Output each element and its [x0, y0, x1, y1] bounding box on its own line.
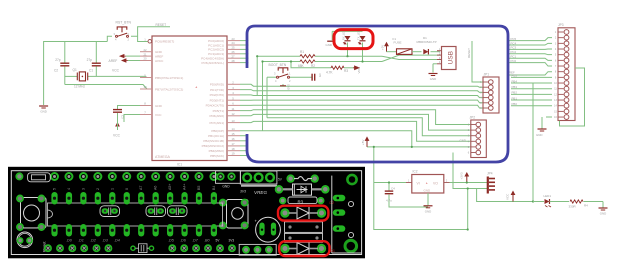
svg-text:.D2: .D2 [90, 239, 96, 243]
svg-text:23: 23 [231, 37, 235, 41]
svg-text:AREF: AREF [109, 59, 118, 63]
svg-text:GND: GND [430, 77, 436, 81]
svg-text:PC4: PC4 [511, 41, 517, 45]
svg-text:25: 25 [231, 46, 235, 50]
svg-text:PC0: PC0 [511, 59, 517, 63]
svg-text:.D5: .D5 [168, 239, 175, 243]
svg-text:5: 5 [53, 188, 57, 190]
svg-text:VO: VO [433, 181, 438, 185]
svg-text:22: 22 [143, 48, 147, 52]
svg-text:PD1(TXD): PD1(TXD) [210, 88, 224, 92]
svg-text:R1: R1 [300, 50, 304, 54]
svg-text:3V3: 3V3 [229, 239, 235, 243]
svg-text:VI: VI [417, 181, 420, 185]
svg-text:14: 14 [231, 127, 235, 131]
svg-text:VCC: VCC [506, 193, 510, 200]
svg-text:VCC: VCC [113, 134, 121, 138]
svg-text:VCC: VCC [112, 69, 120, 73]
svg-text:VCC: VCC [155, 113, 162, 117]
svg-text:JP4: JP4 [487, 172, 493, 176]
svg-text:330R: 330R [569, 205, 577, 209]
svg-text:B5: B5 [197, 186, 201, 190]
svg-text:PC3: PC3 [511, 46, 517, 50]
svg-text:PD0(RXD): PD0(RXD) [210, 83, 224, 87]
svg-text:12: 12 [231, 112, 235, 116]
svg-text:PB2(SS/OC1B): PB2(SS/OC1B) [203, 139, 224, 143]
svg-text:PB7(XTAL2/TOSC2): PB7(XTAL2/TOSC2) [155, 87, 183, 91]
svg-text:A6: A6 [154, 186, 158, 190]
svg-text:PB5: PB5 [512, 74, 518, 78]
svg-text:16: 16 [231, 137, 235, 141]
svg-text:RESET: RESET [156, 23, 167, 27]
svg-text:3: 3 [81, 188, 85, 190]
svg-text:RX_LED: RX_LED [342, 30, 346, 40]
svg-text:15: 15 [231, 132, 235, 136]
svg-text:PD3(INT1): PD3(INT1) [210, 99, 224, 103]
svg-text:PC1(ADC1): PC1(ADC1) [208, 43, 224, 47]
svg-text:PC3(ADC3): PC3(ADC3) [208, 52, 224, 56]
svg-text:GND: GND [287, 84, 291, 90]
svg-text:1: 1 [110, 188, 114, 190]
svg-text:C4: C4 [391, 187, 395, 191]
svg-text:GND: GND [155, 104, 163, 108]
svg-text:GND: GND [155, 50, 163, 54]
svg-text:FUSE: FUSE [394, 41, 402, 45]
svg-text:20: 20 [143, 57, 147, 61]
svg-text:27: 27 [231, 54, 235, 58]
svg-text:R4: R4 [584, 204, 588, 208]
svg-text:TX_LED: TX_LED [357, 30, 361, 40]
svg-text:RST_BTN: RST_BTN [116, 21, 132, 25]
svg-text:17: 17 [231, 142, 235, 146]
svg-text:PC5(ADC5/SCL): PC5(ADC5/SCL) [201, 61, 224, 65]
svg-text:AVCC: AVCC [155, 59, 164, 63]
svg-text:PD4(XCK/T0): PD4(XCK/T0) [206, 104, 224, 108]
svg-text:PB4(MISO): PB4(MISO) [209, 149, 224, 153]
svg-text:PC4(ADC4/SDA): PC4(ADC4/SDA) [201, 57, 224, 61]
svg-text:+3V3: +3V3 [460, 172, 464, 179]
svg-text:PC2(ADC2): PC2(ADC2) [208, 48, 224, 52]
svg-text:13: 13 [231, 119, 235, 123]
svg-text:PC6(/RESET): PC6(/RESET) [155, 40, 174, 44]
svg-text:11: 11 [232, 107, 235, 111]
svg-text:USB: USB [448, 50, 455, 64]
svg-text:PB3: PB3 [512, 85, 518, 89]
svg-text:+: + [426, 181, 428, 185]
svg-text:PD7(AIN1): PD7(AIN1) [209, 121, 224, 125]
svg-text:JP1: JP1 [484, 73, 490, 77]
svg-text:.D4: .D4 [114, 239, 120, 243]
svg-text:IC1: IC1 [177, 163, 182, 167]
svg-text:A5+: A5+ [168, 184, 172, 191]
svg-text:D1: D1 [331, 249, 335, 253]
svg-text:24: 24 [231, 41, 235, 45]
svg-text:3V3: 3V3 [240, 190, 246, 194]
svg-text:10: 10 [143, 85, 147, 89]
svg-text:VCC: VCC [357, 66, 361, 73]
svg-text:JP2: JP2 [470, 116, 476, 120]
svg-text:28: 28 [231, 59, 235, 63]
svg-text:27p: 27p [87, 58, 93, 62]
svg-text:C5: C5 [318, 74, 322, 78]
svg-text:PB1: PB1 [512, 96, 518, 100]
svg-text:IC2: IC2 [413, 170, 418, 174]
svg-text:PB0: PB0 [512, 102, 518, 106]
svg-text:PB2: PB2 [512, 91, 518, 95]
svg-text:.D3: .D3 [102, 239, 109, 243]
svg-text:GND: GND [536, 133, 542, 137]
svg-text:21: 21 [143, 52, 147, 56]
svg-text:PC5: PC5 [511, 37, 517, 41]
svg-text:Q1: Q1 [73, 68, 77, 72]
svg-text:.B0: .B0 [204, 239, 210, 243]
svg-text:.D1: .D1 [78, 239, 84, 243]
svg-text:GND: GND [425, 209, 431, 213]
svg-text:PC1: PC1 [511, 55, 517, 59]
svg-text:B4: B4 [212, 186, 216, 190]
svg-text:GND: GND [424, 189, 432, 193]
svg-text:C2: C2 [54, 69, 58, 73]
svg-text:A7: A7 [139, 186, 143, 190]
svg-text:R3: R3 [298, 199, 304, 204]
svg-text:PB5(SCK): PB5(SCK) [210, 154, 224, 158]
svg-text:+5V: +5V [361, 140, 365, 145]
svg-text:PC2: PC2 [511, 50, 517, 54]
svg-text:GND: GND [40, 110, 46, 114]
svg-text:4: 4 [67, 188, 71, 190]
svg-text:A4+: A4+ [183, 184, 187, 191]
svg-text:19: 19 [231, 152, 235, 156]
svg-text:R3: R3 [344, 69, 348, 73]
svg-text:ATMEGA: ATMEGA [155, 155, 171, 159]
svg-text:PB6(XTAL1/TOSC1): PB6(XTAL1/TOSC1) [155, 76, 183, 80]
svg-text:MBRX0540-TP: MBRX0540-TP [417, 40, 437, 44]
svg-text:PD5(T1): PD5(T1) [213, 109, 224, 113]
svg-text:0: 0 [125, 188, 129, 190]
svg-text:PB4: PB4 [512, 79, 518, 83]
svg-text:.D6: .D6 [180, 239, 187, 243]
svg-text:PB0(ICP): PB0(ICP) [211, 129, 224, 133]
svg-text:PD2(INT0): PD2(INT0) [210, 93, 224, 97]
svg-text:JP3: JP3 [558, 23, 564, 27]
svg-text:GND: GND [600, 212, 606, 216]
svg-text:2: 2 [96, 188, 100, 190]
svg-text:.D7: .D7 [192, 239, 199, 243]
svg-text:+5V: +5V [381, 45, 385, 50]
svg-text:GND: GND [222, 184, 230, 188]
svg-text:4.7u: 4.7u [386, 199, 392, 203]
svg-text:PB3(MOSI/OC2): PB3(MOSI/OC2) [202, 144, 224, 148]
svg-text:PD6(AIN0): PD6(AIN0) [209, 114, 224, 118]
svg-text:26: 26 [231, 50, 235, 54]
svg-text:27p: 27p [55, 58, 61, 62]
svg-text:C1: C1 [89, 69, 93, 73]
svg-text:12 MHz: 12 MHz [74, 85, 85, 89]
svg-text:PC0(ADC0): PC0(ADC0) [208, 39, 224, 43]
svg-text:AREF: AREF [155, 54, 163, 58]
svg-text:GND: GND [460, 139, 466, 143]
svg-text:VREG: VREG [254, 190, 267, 195]
svg-text:LED1: LED1 [544, 194, 552, 198]
svg-text:18: 18 [231, 147, 235, 151]
svg-text:4.7K: 4.7K [326, 71, 333, 75]
svg-text:BOOT_BTN: BOOT_BTN [269, 63, 287, 67]
svg-text:PB1(OC1A): PB1(OC1A) [208, 134, 224, 138]
svg-text:.D0: .D0 [66, 239, 73, 243]
svg-text:GND: GND [326, 43, 332, 47]
svg-text:RESET: RESET [467, 48, 471, 58]
